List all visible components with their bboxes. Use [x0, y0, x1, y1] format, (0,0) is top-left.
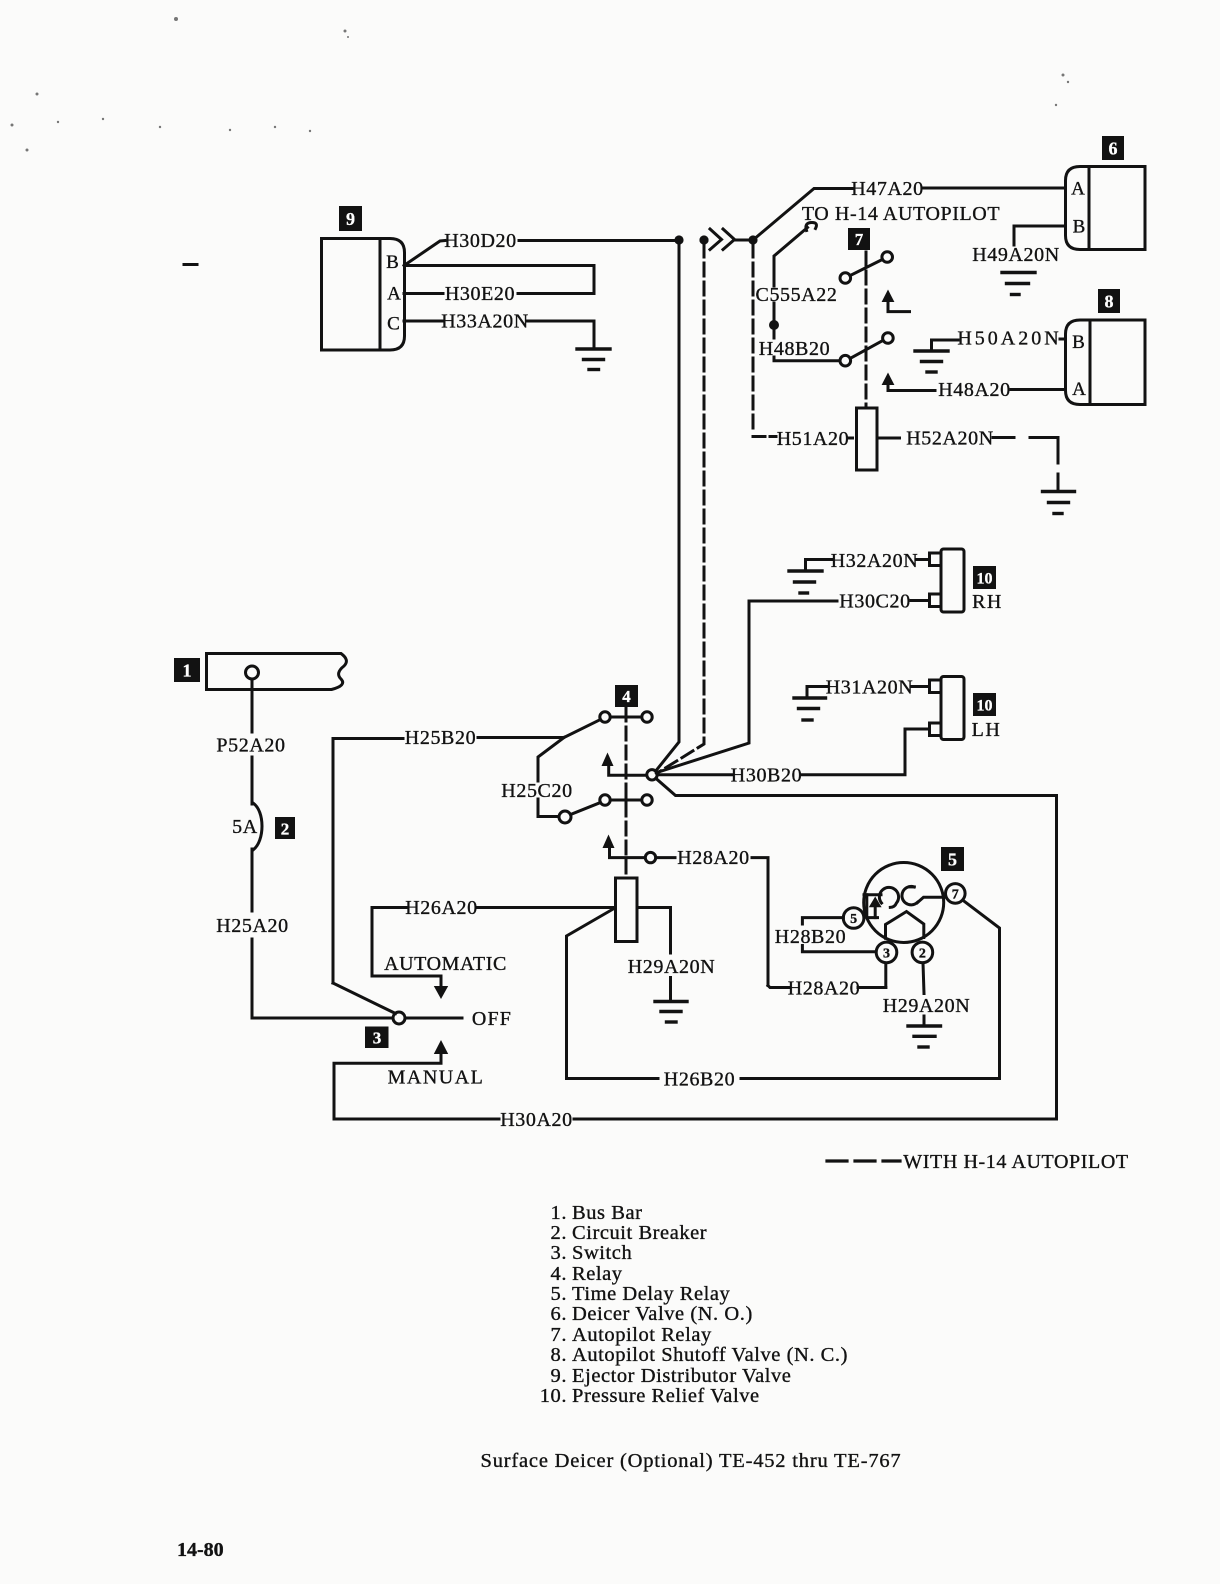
- label box 3: [365, 1027, 389, 1049]
- relay K7 lower blade: [850, 340, 883, 358]
- svg-text:H51A20: H51A20: [777, 428, 850, 450]
- wire AUTOMATIC position from H26A20: [372, 908, 441, 987]
- svg-text:C555A22: C555A22: [756, 284, 838, 306]
- valve LH pin upper: [930, 680, 942, 693]
- wire H30C20 from fan junction to RH valve: [657, 601, 929, 773]
- svg-text:6: 6: [1109, 139, 1118, 159]
- svg-text:B: B: [1072, 332, 1085, 353]
- wire H48B20 to relay 7 lower blade: [774, 303, 840, 361]
- svg-text:LH: LH: [972, 719, 1002, 741]
- svg-text:Autopilot Relay: Autopilot Relay: [572, 1324, 712, 1346]
- svg-text:5: 5: [850, 912, 857, 927]
- svg-text:H30E20: H30E20: [445, 283, 515, 305]
- scan speckles: [11, 17, 1070, 152]
- wire H30E20 jumper pin A to pin B: [404, 266, 594, 294]
- timer contact line to pin 7: [917, 897, 945, 902]
- svg-text:6.: 6.: [551, 1303, 567, 1325]
- timer pin 7 terminal: [946, 884, 966, 904]
- svg-text:RH: RH: [972, 591, 1003, 613]
- wire H52A20N (dashed) to ground: [878, 438, 1059, 492]
- splice chevrons: [701, 229, 749, 250]
- connector 9 pin letters: [386, 252, 401, 335]
- svg-text:H28B20: H28B20: [775, 926, 846, 948]
- svg-text:H29A20N: H29A20N: [883, 995, 971, 1017]
- svg-text:3.: 3.: [551, 1242, 567, 1264]
- wire H48A20 to valve 8 pin A: [1011, 388, 1065, 391]
- timer thermal tent symbol: [886, 912, 924, 939]
- circuit breaker 2 (5A) arc: [253, 803, 262, 850]
- svg-text:H30B20: H30B20: [731, 765, 802, 787]
- svg-text:A: A: [1071, 179, 1085, 200]
- relay 4 lower blade: [571, 803, 601, 815]
- time delay relay 5 body circle: [864, 863, 944, 943]
- svg-text:10.: 10.: [540, 1385, 567, 1407]
- svg-text:Bus Bar: Bus Bar: [572, 1202, 642, 1224]
- wire solid riser from dot A to fan junction: [656, 244, 680, 771]
- relay K7 mechanical link (dashed): [865, 252, 868, 407]
- svg-text:Switch: Switch: [572, 1242, 632, 1264]
- ground for H31A20N: [794, 698, 826, 720]
- label box 9: [339, 206, 362, 231]
- relay K4 upper contact left: [600, 712, 610, 722]
- svg-text:2: 2: [919, 946, 926, 961]
- wire H30B20 from fan junction to LH valve: [657, 729, 929, 775]
- deicer valve connector 6: [1066, 167, 1146, 250]
- label box 5: [941, 847, 964, 871]
- wire H50A20N to ground: [932, 339, 1066, 351]
- svg-text:AUTOMATIC: AUTOMATIC: [384, 953, 507, 975]
- wire H32A20N to ground: [806, 560, 930, 571]
- svg-text:4.: 4.: [551, 1263, 567, 1285]
- wire H26B20 from relay 4 coil to timer pin 7: [567, 900, 1000, 1079]
- wire H30D20 from pin B to splice: [404, 241, 676, 266]
- label box 7: [848, 228, 870, 250]
- arrowhead MANUAL up: [434, 1040, 448, 1054]
- svg-text:5: 5: [948, 850, 957, 870]
- ground for H33A20N: [577, 349, 610, 370]
- svg-text:9: 9: [346, 209, 355, 229]
- wire H28B20 timer pin 5 to pin 3: [802, 918, 876, 952]
- wire H51A20 (dashed): [753, 244, 853, 438]
- relay K4 actuator arrow upper: [602, 753, 647, 776]
- svg-text:Time Delay Relay: Time Delay Relay: [572, 1283, 731, 1305]
- svg-text:10: 10: [977, 571, 993, 588]
- node fan junction (relay 4 output): [647, 770, 657, 780]
- svg-text:2.: 2.: [551, 1222, 567, 1244]
- svg-text:8.: 8.: [551, 1344, 567, 1366]
- switch 3 pivot terminal: [393, 1012, 405, 1024]
- wire H25B20 from switch to relay 4 upper contact: [333, 720, 601, 984]
- svg-text:3: 3: [373, 1029, 382, 1048]
- ground for H50A20N: [915, 351, 948, 372]
- node junction dot C: [748, 235, 757, 244]
- legend dashed sample WITH H-14 AUTOPILOT: [827, 1159, 900, 1162]
- relay K4 upper contact bar: [611, 716, 642, 719]
- connector 6 pin letters: [1071, 179, 1085, 238]
- wire P52A20 from bus bar to breaker: [251, 679, 254, 804]
- svg-text:H28A20: H28A20: [788, 978, 861, 1000]
- ground for H52A20N: [1043, 492, 1075, 514]
- wire H25C20 branch to relay 4 lower contact: [538, 738, 564, 817]
- label box 2: [275, 817, 295, 839]
- svg-text:Pressure Relief Valve: Pressure Relief Valve: [572, 1385, 760, 1407]
- svg-text:H48B20: H48B20: [759, 338, 830, 360]
- svg-text:7: 7: [952, 887, 959, 902]
- node H28A20 terminal: [645, 852, 655, 862]
- svg-text:7: 7: [855, 230, 864, 249]
- label box 10 RH: [973, 566, 996, 589]
- wire H49A20N from pin B of valve 6 to ground: [1014, 226, 1065, 245]
- relay K7 actuator arrow lower: [882, 373, 935, 391]
- relay K7 upper contact right: [882, 252, 893, 263]
- wire H47A20 from splice to deicer valve 6: [753, 188, 1065, 240]
- valve LH pin lower: [930, 723, 942, 736]
- wire H25A20 from breaker to switch: [252, 849, 392, 1018]
- timer heater coil left hook: [879, 887, 898, 907]
- label box 4: [615, 685, 638, 707]
- svg-text:H47A20: H47A20: [851, 178, 924, 200]
- svg-text:Circuit Breaker: Circuit Breaker: [572, 1222, 707, 1244]
- relay K4 lower contact bar: [611, 799, 642, 802]
- svg-text:H25A20: H25A20: [216, 915, 289, 937]
- svg-text:C: C: [387, 314, 400, 335]
- wire OFF stub: [406, 1017, 463, 1020]
- timer pin 3 terminal: [876, 942, 897, 963]
- svg-text:H33A20N: H33A20N: [441, 311, 529, 333]
- legend list: [540, 1202, 848, 1407]
- wire H29A20N from coil to ground: [637, 908, 671, 1002]
- ground for H29A20N (timer): [908, 1026, 941, 1047]
- svg-text:Surface Deicer (Optional) TE-4: Surface Deicer (Optional) TE-452 thru TE…: [481, 1450, 902, 1472]
- svg-text:5A: 5A: [232, 816, 258, 838]
- timer heater coil right hook: [902, 886, 917, 904]
- autopilot shutoff valve connector 8: [1066, 320, 1146, 405]
- svg-text:H50A20N: H50A20N: [957, 328, 1061, 350]
- svg-text:TO H-14 AUTOPILOT: TO H-14 AUTOPILOT: [802, 203, 1000, 225]
- wire name labels: [216, 178, 1128, 1173]
- svg-text:9.: 9.: [551, 1365, 567, 1387]
- svg-text:Ejector Distributor Valve: Ejector Distributor Valve: [572, 1365, 791, 1387]
- svg-text:A: A: [1072, 379, 1086, 400]
- wire C555A22 to H-14 autopilot hook: [774, 223, 816, 287]
- svg-text:WITH H-14 AUTOPILOT: WITH H-14 AUTOPILOT: [903, 1151, 1128, 1173]
- switch blade terminal relay 4 lower: [559, 811, 571, 823]
- relay K4 lower contact right: [642, 795, 652, 805]
- wire H31A20N to ground: [807, 687, 929, 698]
- svg-text:Relay: Relay: [572, 1263, 623, 1285]
- svg-text:Deicer Valve (N. O.): Deicer Valve (N. O.): [572, 1303, 753, 1325]
- svg-text:H28A20: H28A20: [677, 847, 750, 869]
- relay K7 actuator arrow upper: [882, 290, 910, 312]
- switch 3 blade: [333, 983, 396, 1014]
- wire H28A20 from terminal to timer pin 3: [656, 858, 886, 988]
- arrowhead AUTOMATIC down: [434, 986, 448, 999]
- svg-text:H25C20: H25C20: [501, 780, 572, 802]
- svg-text:H30A20: H30A20: [500, 1109, 573, 1131]
- svg-text:2: 2: [281, 820, 290, 839]
- relay K7 coil: [857, 408, 878, 470]
- relay K7 lower contact right: [883, 333, 894, 344]
- timer pin 2 terminal: [912, 942, 933, 963]
- svg-text:H31A20N: H31A20N: [826, 677, 914, 699]
- svg-text:H52A20N: H52A20N: [906, 428, 994, 450]
- ground for H49A20N: [1002, 273, 1035, 295]
- node junction dot A: [674, 235, 683, 244]
- svg-text:H25B20: H25B20: [405, 727, 476, 749]
- svg-text:3: 3: [883, 946, 890, 961]
- bus bar 1: [207, 654, 347, 690]
- relay K7 upper contact left: [840, 273, 851, 284]
- label box 1: [174, 658, 200, 682]
- wire dashed autopilot riser from dot B to fan junction (dashed): [657, 244, 705, 774]
- svg-text:B: B: [1073, 217, 1086, 238]
- valve RH pin upper: [930, 553, 942, 566]
- relay K7 upper blade: [850, 259, 883, 275]
- valve RH pin lower: [930, 594, 942, 607]
- label box 8: [1098, 289, 1120, 313]
- connector 8 pin letters: [1072, 332, 1086, 400]
- svg-text:H26B20: H26B20: [664, 1069, 735, 1091]
- svg-text:Autopilot Shutoff Valve (N. C.: Autopilot Shutoff Valve (N. C.): [572, 1344, 848, 1366]
- svg-text:OFF: OFF: [472, 1008, 512, 1030]
- svg-text:H30C20: H30C20: [839, 591, 910, 613]
- ground for H32A20N: [789, 571, 822, 593]
- wire MANUAL position to H30A20: [334, 1053, 441, 1118]
- svg-text:1: 1: [183, 661, 192, 681]
- node C555A22/H48B20 junction dot: [769, 320, 779, 330]
- svg-text:8: 8: [1105, 292, 1114, 312]
- svg-text:MANUAL: MANUAL: [388, 1067, 485, 1089]
- relay K4 actuator arrow lower: [603, 835, 646, 858]
- stray scan mark near connector 9: [184, 263, 197, 266]
- svg-text:5.: 5.: [551, 1283, 567, 1305]
- pressure relief valve 10 LH body: [941, 677, 964, 740]
- relay K4 lower contact left: [600, 795, 610, 805]
- label box 10 LH: [973, 693, 996, 716]
- wire H29A20N timer pin 2 to ground: [923, 963, 924, 1026]
- svg-text:B: B: [386, 252, 399, 273]
- bus bar terminal: [246, 666, 259, 679]
- svg-text:H32A20N: H32A20N: [831, 550, 919, 572]
- svg-text:H48A20: H48A20: [938, 379, 1011, 401]
- timer actuator bracket and arrow: [864, 895, 882, 918]
- svg-text:A: A: [387, 284, 401, 305]
- svg-text:1.: 1.: [551, 1202, 567, 1224]
- relay K4 coil: [616, 878, 638, 942]
- relay K4 mechanical link (dashed): [625, 708, 628, 877]
- svg-text:4: 4: [622, 687, 631, 706]
- connector J9 (ejector distributor valve): [322, 239, 405, 351]
- pressure relief valve 10 RH body: [941, 549, 964, 612]
- svg-text:H29A20N: H29A20N: [628, 956, 716, 978]
- timer pin 5 terminal: [843, 908, 864, 929]
- timer pin numbers: [850, 887, 959, 961]
- label box 6: [1102, 136, 1124, 160]
- svg-text:7.: 7.: [551, 1324, 567, 1346]
- svg-text:H26A20: H26A20: [405, 897, 478, 919]
- svg-text:H30D20: H30D20: [444, 230, 517, 252]
- svg-text:10: 10: [977, 698, 993, 715]
- wire from fan junction to H30A20 riser: [656, 778, 1057, 795]
- wire H33A20N pin C to ground: [404, 321, 594, 349]
- wire H30A20: [334, 796, 1057, 1119]
- reference designator boxes: [174, 136, 1124, 1048]
- svg-text:P52A20: P52A20: [216, 735, 285, 757]
- wire H26A20 from switch to relay 4 coil: [372, 906, 615, 909]
- svg-text:14-80: 14-80: [177, 1539, 224, 1561]
- ground for H29A20N (relay 4): [655, 1002, 687, 1023]
- svg-text:H49A20N: H49A20N: [972, 244, 1060, 266]
- node junction dot B: [699, 235, 708, 244]
- relay K4 upper contact right: [642, 712, 652, 722]
- relay K7 lower contact left: [840, 355, 851, 366]
